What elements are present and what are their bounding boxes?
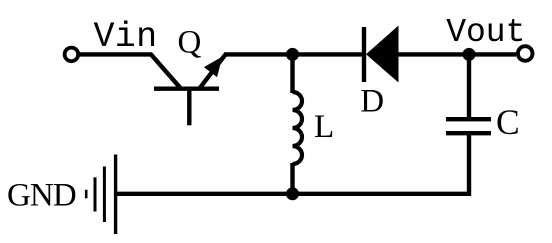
transistor Q1 emitter arrowhead	[204, 57, 222, 78]
svg-text:GND: GND	[7, 177, 76, 213]
battery GND plate 3	[103, 167, 106, 223]
svg-text:Q: Q	[178, 25, 202, 61]
wire Vin to transistor	[78, 54, 181, 88]
svg-text:L: L	[314, 109, 334, 145]
junction rail node	[286, 187, 299, 200]
inductor L1	[293, 92, 303, 164]
wire inductor to rail	[290, 163, 294, 194]
wire switch node	[224, 52, 364, 56]
transistor Q1 base bar	[154, 86, 219, 90]
diode D1 triangle	[366, 26, 399, 83]
battery GND plate 2	[94, 177, 97, 211]
svg-text:D: D	[360, 84, 384, 120]
capacitor C1 top plate	[446, 117, 491, 121]
transistor Q1 emitter shaft	[199, 54, 225, 88]
transistor Q1 base lead	[187, 89, 191, 126]
svg-text:Vout: Vout	[446, 14, 525, 51]
wire diode to Vout	[397, 52, 516, 56]
diode D1 cathode bar	[362, 27, 366, 82]
wire Vout node to capacitor	[467, 54, 471, 119]
wire capacitor to rail	[116, 133, 469, 194]
capacitor C1 bottom plate	[446, 131, 491, 135]
svg-text:C: C	[496, 102, 520, 142]
battery GND plate 1	[85, 190, 88, 199]
junction switch node	[286, 48, 299, 61]
terminal Vin	[65, 48, 79, 62]
wire to inductor	[290, 54, 294, 93]
terminal Vout	[518, 46, 533, 61]
junction Vout node	[463, 48, 476, 61]
battery GND plate 4	[114, 155, 117, 235]
svg-text:Vin: Vin	[94, 17, 158, 57]
